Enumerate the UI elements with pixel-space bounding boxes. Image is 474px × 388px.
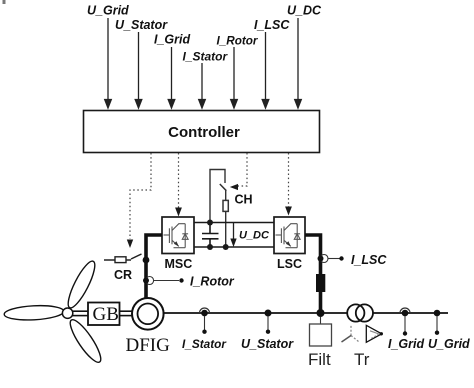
junction dot CR to rotor line [143,257,150,264]
svg-text:CR: CR [114,268,132,282]
LSC IGBT symbol [276,224,301,248]
svg-text:GB: GB [93,304,119,325]
wire arrow I_Rotor into controller [233,47,235,101]
MSC IGBT symbol [164,224,189,248]
DC link top rail [194,222,274,224]
svg-text:I_Rotor: I_Rotor [217,35,259,48]
svg-text:DFIG: DFIG [126,335,171,356]
wire arrow I_Grid into controller [171,47,173,101]
grid bus wire [163,312,449,314]
CR switch blade [131,254,142,259]
svg-text:I_Grid: I_Grid [388,337,424,351]
thick wire LSC to grid drop [305,235,321,313]
junction dot chopper bottom [223,244,229,250]
junction dot LSC drop to bus [317,309,325,317]
transformer delta symbol [366,325,381,342]
I_Grid sensor [400,308,410,313]
LSC converter box [274,217,305,254]
I_Rotor probe wire [154,280,179,282]
svg-text:Filt: Filt [308,350,331,369]
dashed control wire to LSC [288,153,290,208]
chopper branch wire [210,170,226,248]
turbine blade lower [66,316,106,366]
gearbox GB box [88,303,120,326]
dashed control wire to MSC [178,153,180,209]
thick wire MSC to rotor drop [146,235,162,299]
wire arrow U_Stator into controller [138,32,140,101]
svg-text:U_Stator: U_Stator [241,337,294,351]
turbine hub [62,308,72,318]
U_Grid probe [434,310,441,317]
junction dot cap bottom [207,244,213,250]
svg-text:Tr: Tr [354,350,370,369]
wire arrow U_Grid into controller [105,18,302,108]
chopper resistor [223,200,228,211]
Filt connection stub [320,317,322,324]
I_Stator sensor [200,308,210,313]
turbine blade upper [64,258,100,311]
wire arrow I_LSC into controller [265,32,267,101]
svg-text:U_DC: U_DC [287,4,322,18]
dashed control wire to CR switch [130,153,151,239]
MSC converter box [162,217,194,254]
svg-text:MSC: MSC [165,257,193,271]
transformer wye symbol [351,326,359,342]
svg-text:I_Rotor: I_Rotor [190,275,235,289]
svg-text:I_Stator: I_Stator [182,337,227,351]
wire arrow U_DC into controller [297,18,299,101]
CR resistor [115,257,126,263]
svg-text:U_Grid: U_Grid [428,337,470,351]
chopper switch [220,184,227,191]
turbine blade left [4,304,64,321]
I_Rotor junction dot [143,278,149,284]
wire arrow I_Stator into controller [201,63,203,101]
transformer Tr circles [347,304,364,321]
corner artifact [3,0,6,4]
shaft hub-GB [72,310,88,312]
svg-text:CH: CH [235,193,253,207]
svg-text:U_Stator: U_Stator [115,18,168,32]
svg-text:I_Grid: I_Grid [154,33,190,47]
line inductor (black rectangle) [316,274,325,292]
svg-text:U_DC: U_DC [239,230,270,242]
Filt box [310,324,332,346]
I_Rotor sensor circle [146,277,154,285]
I_LSC sensor [320,255,328,263]
svg-text:I_Stator: I_Stator [183,50,229,64]
svg-text:I_LSC: I_LSC [254,18,290,32]
svg-text:I_LSC: I_LSC [351,253,387,267]
CR contactor wire [104,259,115,261]
DFIG machine [132,298,164,330]
shaft GB-DFIG [120,310,134,312]
junction dot cap top [207,220,213,226]
controller block [84,111,320,153]
svg-text:Controller: Controller [168,124,240,141]
dashed control wire to chopper CH [238,153,247,186]
svg-text:U_Grid: U_Grid [87,4,129,18]
U_Stator probe [265,310,272,317]
CR wire [126,259,131,261]
U_DC measurement arrow [233,223,235,241]
DC link capacitor [202,223,219,248]
svg-text:LSC: LSC [277,257,302,271]
DC link bottom rail [194,246,274,248]
